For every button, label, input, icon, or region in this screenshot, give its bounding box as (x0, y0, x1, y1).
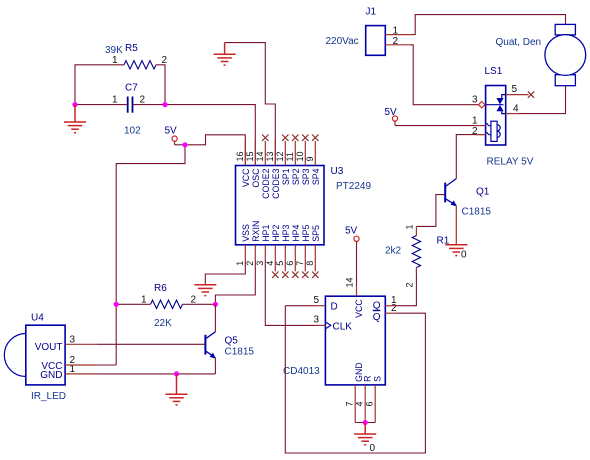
svg-text:5: 5 (275, 261, 285, 266)
wire U4 VCC to 5V rail (98, 364, 117, 366)
ground below U3 pin1 (194, 285, 216, 296)
svg-text:SP3: SP3 (301, 168, 311, 185)
U3 bottom no-connect X pins 4..8 (272, 272, 318, 278)
svg-text:HP2: HP2 (271, 224, 281, 241)
motor Quat, Den (496, 24, 586, 85)
svg-text:R: R (363, 376, 373, 382)
svg-text:2: 2 (140, 95, 146, 106)
ground top center (214, 43, 236, 66)
wire Q1 collector up to relay pin2 (456, 135, 485, 179)
svg-text:VOUT: VOUT (35, 342, 63, 353)
svg-text:2: 2 (472, 126, 478, 137)
wire Q5 collector up (214, 304, 216, 332)
svg-text:4: 4 (265, 261, 275, 266)
svg-text:RXIN: RXIN (251, 221, 261, 242)
svg-text:CD4013: CD4013 (283, 366, 320, 377)
svg-text:2: 2 (245, 261, 255, 266)
svg-text:SP5: SP5 (311, 225, 321, 242)
relay LS1 (472, 66, 534, 168)
svg-text:16: 16 (235, 151, 245, 161)
relay pin2 stub (476, 134, 486, 136)
svg-text:CODE2: CODE2 (261, 168, 271, 198)
IR module U4 (4, 313, 97, 403)
U3 top no-connect X pins 14 12 11 10 9 (262, 135, 318, 141)
svg-text:4: 4 (355, 401, 365, 406)
node junction right (162, 102, 167, 107)
wire 5V rail down to U4 VCC (116, 145, 185, 365)
power 5V (left) (165, 126, 178, 145)
svg-text:C1815: C1815 (462, 207, 492, 218)
svg-text:11: 11 (285, 152, 295, 161)
svg-text:0: 0 (370, 443, 376, 454)
svg-text:4: 4 (513, 104, 519, 115)
svg-text:RELAY 5V: RELAY 5V (487, 157, 534, 168)
svg-text:VCC: VCC (241, 168, 251, 187)
svg-text:Quat, Den: Quat, Den (496, 37, 542, 48)
svg-text:C1815: C1815 (225, 347, 255, 358)
svg-text:S: S (373, 376, 383, 382)
svg-text:Q5: Q5 (225, 336, 239, 347)
U3 top pins 16..9 (245, 140, 315, 166)
relay pin3 open terminal (479, 102, 485, 108)
capacitor C7 (112, 83, 146, 137)
wire U3 pin3 HP1 to CD4013 CLK (265, 260, 315, 325)
svg-text:D: D (331, 302, 338, 313)
contact pin5 (502, 95, 506, 98)
U3 top pin names (241, 168, 321, 199)
svg-text:1: 1 (404, 224, 414, 229)
relay pin5 stub with no-connect X (506, 94, 529, 96)
transistor Q5 C1815 (205, 332, 254, 359)
svg-text:22K: 22K (154, 318, 172, 329)
wire U4 VOUT to Q5 base (98, 343, 205, 345)
resistor R6 (141, 283, 197, 329)
ground below U4 GND (166, 374, 188, 405)
resistor R5 (105, 43, 168, 69)
svg-text:1: 1 (235, 261, 245, 266)
svg-text:102: 102 (124, 126, 141, 137)
svg-text:CODE3: CODE3 (271, 168, 281, 198)
wire U4 GND to Q5 emitter (98, 373, 216, 375)
power 5V (relay) (385, 107, 398, 126)
svg-text:OSC: OSC (251, 168, 261, 188)
U3 bottom pin numbers (235, 261, 315, 266)
flip-flop CD4013 (283, 296, 385, 385)
wire Q1 emitter to ground 0 (455, 206, 457, 245)
wire Q5 emitter down (214, 358, 216, 374)
svg-text:J1: J1 (366, 7, 377, 18)
svg-text:VSS: VSS (241, 224, 251, 242)
svg-text:HP1: HP1 (261, 224, 271, 241)
CD4013 pin stubs (315, 286, 395, 422)
power 5V (CD4013) (345, 225, 359, 286)
svg-text:2k2: 2k2 (385, 246, 402, 257)
wire 5V to U3 pin16 (175, 135, 246, 166)
contact pin4 (502, 111, 506, 113)
wire U3 pin1 to ground (205, 260, 245, 285)
wire R5 pin2 down (156, 65, 165, 105)
wire CD4013 D pin5 (285, 305, 315, 307)
resistor 2k2 (385, 224, 421, 287)
wire motor bottom to relay pin4 (518, 86, 566, 114)
svg-text:6: 6 (285, 261, 295, 266)
svg-text:2: 2 (391, 303, 397, 314)
IC U3 PT2249 (236, 166, 372, 245)
svg-text:220Vac: 220Vac (326, 36, 359, 47)
wire U3 pin2 RXIN to R6 node (215, 260, 255, 304)
wire C7 left (75, 104, 127, 106)
svg-text:IR_LED: IR_LED (31, 391, 66, 402)
svg-text:5V: 5V (165, 126, 178, 137)
relay pin4 stub (506, 113, 518, 115)
wire 5V to relay pin1 (395, 125, 476, 127)
svg-text:HP4: HP4 (291, 224, 301, 241)
svg-text:12: 12 (275, 151, 285, 161)
svg-text:5V: 5V (345, 225, 358, 236)
svg-text:SP4: SP4 (311, 168, 321, 185)
U3 bottom pins 1..8 (245, 245, 315, 271)
svg-text:HP3: HP3 (281, 224, 291, 241)
svg-text:6: 6 (365, 401, 375, 406)
wire top ground to U3 pin13 (225, 43, 276, 166)
svg-text:8: 8 (305, 261, 315, 266)
relay pin1 stub (476, 125, 486, 127)
svg-text:U3: U3 (331, 166, 344, 177)
svg-text:C7: C7 (125, 83, 138, 94)
CD4013 pin numbers (314, 277, 398, 406)
svg-text:VCC: VCC (354, 299, 364, 318)
svg-text:14: 14 (255, 151, 265, 161)
wire R5 pin1 to left rail (75, 65, 124, 105)
svg-text:15: 15 (245, 151, 255, 161)
svg-text:9: 9 (305, 156, 315, 161)
connector J1 (326, 7, 413, 56)
svg-text:R6: R6 (154, 283, 167, 294)
coil (491, 121, 497, 141)
node junction GND (174, 371, 179, 376)
svg-text:R5: R5 (125, 43, 138, 54)
wire CD4013 Qbar pin2 feedback loop (285, 306, 425, 453)
svg-text:7: 7 (345, 401, 355, 406)
svg-text:HP5: HP5 (301, 224, 311, 241)
svg-text:Q: Q (373, 312, 381, 323)
svg-text:3: 3 (472, 95, 478, 106)
svg-text:3: 3 (255, 261, 265, 266)
ground 0 below CD4013 (354, 423, 376, 455)
wire R6 pin2 (183, 303, 216, 305)
ground left (64, 105, 86, 133)
node junction R6 right (213, 302, 218, 307)
node junction R6 left (114, 302, 119, 307)
svg-text:7: 7 (295, 261, 305, 266)
svg-text:SP1: SP1 (281, 168, 291, 185)
node junction left (72, 102, 77, 107)
wire CD4013 Q pin1 to 2k2 (395, 274, 416, 306)
wire J1 pin2 to relay pin3 (410, 45, 479, 105)
svg-text:U4: U4 (31, 313, 44, 324)
svg-text:5: 5 (512, 84, 518, 95)
svg-text:PT2249: PT2249 (336, 181, 371, 192)
svg-text:0: 0 (461, 250, 467, 261)
wire CD4013 bottom pins common (355, 422, 375, 424)
svg-text:CLK: CLK (333, 321, 353, 332)
svg-text:Q1: Q1 (476, 187, 490, 198)
svg-text:SP2: SP2 (291, 168, 301, 185)
wire J1 pin1 to motor (412, 15, 566, 35)
svg-text:13: 13 (265, 151, 275, 161)
U3 bottom pin names (241, 221, 321, 242)
svg-text:2: 2 (404, 282, 414, 287)
U3 top pin numbers (235, 151, 315, 161)
svg-text:5: 5 (314, 295, 320, 306)
wire C7 right to U3 pin15 (133, 105, 255, 166)
svg-text:1: 1 (472, 116, 478, 127)
ground 0 below Q1 (445, 245, 467, 261)
wire 2k2 pin1 to Q1 base (416, 195, 444, 227)
node junction bottom (363, 420, 368, 425)
svg-text:GND: GND (40, 370, 62, 381)
svg-text:10: 10 (295, 151, 305, 161)
svg-text:1: 1 (112, 95, 118, 106)
svg-text:LS1: LS1 (485, 66, 503, 77)
node junction 5V (182, 142, 187, 147)
wire R6 pin1 (116, 303, 150, 305)
contact common line pin3 (486, 104, 504, 106)
svg-text:3: 3 (314, 315, 320, 326)
transistor Q1 C1815 (445, 179, 491, 218)
svg-text:14: 14 (344, 277, 354, 287)
